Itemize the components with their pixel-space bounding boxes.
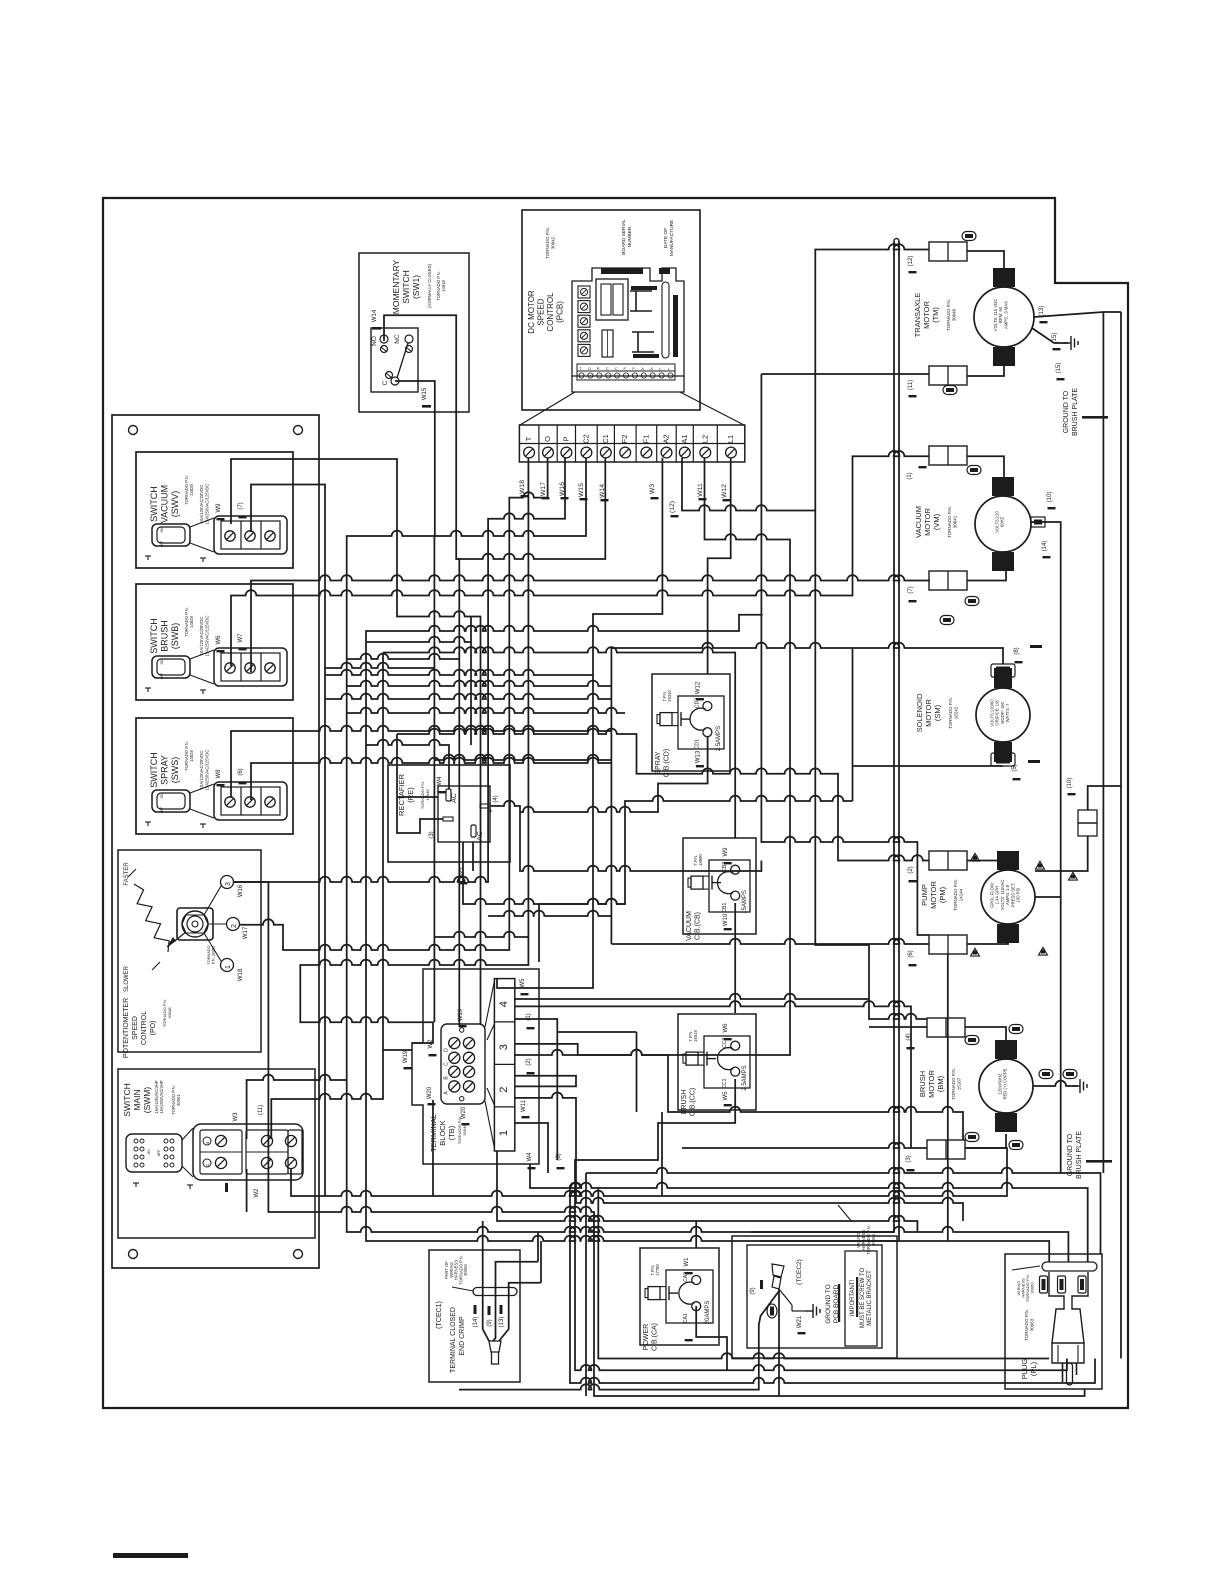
wire rect AC2 wire: [472, 842, 474, 871]
svg-text:15167: 15167: [957, 1077, 962, 1090]
wire rect + wire: [490, 801, 761, 871]
wire trunk link TM11: [761, 373, 929, 375]
wire W16 from P: [234, 458, 565, 882]
svg-text:C2: C2: [581, 434, 590, 444]
fan line right PCB-to-strip: [680, 392, 744, 425]
svg-text:(SWS): (SWS): [170, 757, 180, 784]
wire row 659 link: [347, 654, 460, 659]
wire conn10 bottom wire: [1035, 836, 1088, 871]
svg-text:ON: ON: [160, 793, 164, 798]
svg-text:W3: W3: [649, 484, 656, 494]
wire SWM 11 wire: [271, 653, 383, 1140]
wire W10 row2: [636, 1032, 638, 1112]
wire SWS terminal2 feed: [251, 758, 611, 800]
svg-text:GROUND TO: GROUND TO: [1063, 390, 1070, 433]
svg-text:F1: F1: [641, 435, 650, 444]
svg-text:SWITCH: SWITCH: [149, 486, 159, 522]
wire W15 SW1 C wire: [395, 381, 435, 1022]
wire VM right wire: [1031, 522, 1061, 1173]
wire bottom row 1283: [540, 1241, 542, 1283]
wire W3 from A2: [497, 458, 662, 988]
panel mounting hole bottom-right: [294, 1250, 303, 1259]
svg-text:14828: 14828: [189, 750, 194, 762]
svg-text:VACUUM: VACUUM: [160, 485, 170, 523]
PM warn tri 1: [971, 853, 980, 861]
svg-text:(3): (3): [906, 1155, 912, 1162]
svg-text:3: 3: [498, 1044, 510, 1050]
VM oval top: [967, 466, 981, 475]
svg-text:14828: 14828: [189, 616, 194, 628]
BM oval top1: [965, 1036, 979, 1045]
svg-text:(12): (12): [908, 256, 914, 267]
svg-text:TORNADO P.N.: TORNADO P.N.: [948, 697, 953, 729]
wire SM top wire: [611, 643, 1003, 664]
svg-text:W5: W5: [723, 1091, 729, 1101]
wire W12 from L1: [708, 458, 731, 631]
VM oval bottom1: [965, 597, 979, 606]
svg-text:W13: W13: [695, 750, 701, 763]
brush circuit breaker CC box: [678, 1014, 756, 1110]
svg-text:MAIN: MAIN: [132, 1089, 142, 1110]
PCB terminal strip T O P C2 C1 F2 F1 A2 A1 L2 L1: [519, 425, 744, 462]
svg-text:30060: 30060: [463, 1264, 468, 1276]
PM warn tri 4: [1039, 947, 1048, 955]
svg-text:14918: 14918: [441, 280, 446, 292]
PM connector (6): [929, 935, 967, 954]
wire W10 row: [557, 1031, 636, 1033]
VM connector (7): [929, 571, 967, 590]
terminal block TB: [412, 969, 539, 1164]
svg-text:(PO): (PO): [150, 1021, 157, 1036]
svg-text:(RE): (RE): [406, 787, 415, 803]
potentiometer speed control PO box: [118, 850, 261, 1052]
svg-text:(7): (7): [238, 502, 244, 509]
svg-text:NUMBER: NUMBER: [627, 226, 633, 247]
TM oval top: [962, 232, 976, 241]
svg-text:AMPS: .3 MAX: AMPS: .3 MAX: [1003, 301, 1008, 329]
svg-text:RECTAFIER: RECTAFIER: [397, 773, 406, 816]
wire PM right wire: [1035, 896, 1061, 898]
svg-text:16519: 16519: [693, 1030, 698, 1042]
svg-text:(14): (14): [1042, 541, 1048, 552]
svg-text:NO: NO: [371, 336, 378, 346]
transaxle motor TM: [993, 268, 1015, 287]
svg-text:15A/250VAC/125VDC: 15A/250VAC/125VDC: [205, 484, 210, 525]
wire row 1358: [598, 1188, 1049, 1359]
svg-text:SWITCH: SWITCH: [149, 618, 159, 654]
svg-text:TORNADO P.N.: TORNADO P.N.: [947, 506, 952, 538]
svg-text:(9): (9): [750, 1287, 756, 1294]
svg-text:W19: W19: [403, 1050, 409, 1063]
label W12: [721, 484, 728, 498]
wire VM lower wire: [967, 570, 1006, 581]
svg-text:10A/125VAC/28VDC: 10A/125VAC/28VDC: [199, 617, 204, 656]
BM oval bottom1: [965, 1133, 979, 1142]
svg-text:W18: W18: [238, 968, 244, 981]
svg-text:SOLENOID: SOLENOID: [915, 693, 924, 732]
wire row 745 link: [366, 740, 449, 789]
svg-text:NC: NC: [394, 334, 401, 344]
SM terminal bottom: [994, 742, 1012, 762]
wire row 1173: [586, 1168, 1101, 1254]
svg-text:VACUUM: VACUUM: [686, 911, 693, 941]
wire rect (3) wire: [397, 734, 443, 833]
wire rect in1: [397, 796, 438, 798]
svg-text:OFF: OFF: [160, 673, 164, 679]
svg-text:MOTOR: MOTOR: [927, 1070, 936, 1098]
svg-text:(5): (5): [1012, 764, 1018, 771]
svg-text:CONTROL: CONTROL: [141, 1011, 148, 1045]
control panel plate outline: [112, 415, 319, 1268]
svg-text:15948: 15948: [425, 789, 430, 801]
panel mounting hole top-left: [129, 426, 138, 435]
svg-text:ON: ON: [160, 659, 164, 664]
wire row 642 link: [366, 637, 471, 642]
vacuum circuit breaker CB box: [683, 838, 756, 934]
svg-text:POTENTIOMETER: POTENTIOMETER: [123, 998, 130, 1058]
svg-text:(SW1): (SW1): [411, 275, 421, 299]
svg-text:(10): (10): [1047, 492, 1053, 503]
svg-text:VACUUM: VACUUM: [914, 506, 923, 538]
wire row 713 link: [347, 708, 625, 713]
svg-text:15AMPS: 15AMPS: [742, 890, 748, 914]
svg-text:IMPORTANT!: IMPORTANT!: [850, 1279, 856, 1316]
svg-text:(TM): (TM): [931, 307, 940, 323]
wire CA bottom wire: [696, 1306, 727, 1370]
svg-text:DC MOTOR: DC MOTOR: [527, 290, 536, 334]
TM connector (11): [929, 366, 967, 385]
wire TM 13 wire: [1034, 312, 1121, 317]
wire row 668 link: [325, 663, 434, 668]
wire W20 wire: [432, 1100, 434, 1196]
wire TB 2 wires: [515, 1076, 576, 1087]
SM terminal top: [994, 668, 1012, 688]
PM warn tri 5: [1069, 872, 1078, 880]
VM connector (1): [929, 446, 967, 465]
wire TCEC1 wire 9: [493, 1262, 538, 1341]
wiring harness note: [856, 1225, 876, 1255]
svg-text:POWER: POWER: [643, 1324, 650, 1350]
rectifier RE box: [388, 765, 510, 862]
svg-text:(11): (11): [258, 1105, 264, 1115]
wire SWM W2b wire: [291, 1169, 325, 1196]
svg-text:(SWB): (SWB): [170, 623, 180, 650]
svg-text:TORNADO P.N.: TORNADO P.N.: [545, 227, 550, 259]
power circuit breaker CA box: [640, 1248, 719, 1345]
svg-text:W2: W2: [254, 1188, 260, 1198]
svg-text:A: A: [650, 366, 653, 371]
ground to brush plate label bottom: [1067, 1131, 1083, 1179]
wire TB 3 wire b: [578, 1050, 963, 1140]
BM connector (4): [927, 1018, 965, 1037]
svg-text:(TCEC2): (TCEC2): [796, 1259, 803, 1285]
label W14: [599, 484, 606, 498]
wire SWM W3 wire: [247, 1075, 347, 1139]
TM ground labels: [1039, 306, 1045, 317]
wire BM lower right wire: [965, 1134, 1006, 1148]
svg-text:C: C: [615, 366, 618, 371]
wire W15 from C2: [347, 458, 1069, 1262]
svg-text:C: C: [382, 380, 389, 385]
svg-text:W17: W17: [540, 482, 547, 496]
svg-text:(TCEC1): (TCEC1): [436, 1301, 443, 1329]
svg-text:60HZ: 60HZ: [1000, 516, 1005, 527]
wire rect W5 wire: [463, 796, 853, 904]
svg-text:2: 2: [231, 924, 238, 928]
PM warn tri 2: [1036, 861, 1045, 869]
wire TM upper wire: [967, 251, 1004, 269]
svg-text:(12): (12): [669, 501, 676, 513]
svg-text:(SM): (SM): [933, 704, 942, 721]
wire W14 from C1: [456, 458, 605, 559]
svg-text:14828: 14828: [189, 484, 194, 496]
wire row 686 link: [347, 681, 612, 686]
terminal closed end crimp TCEC2 box: [732, 1236, 897, 1358]
wire row 760 SM5: [434, 755, 611, 760]
svg-text:W4: W4: [437, 776, 443, 786]
svg-text:30042: 30042: [551, 236, 556, 249]
wire TB 2 wire b: [515, 1093, 963, 1222]
wire TCEC1 wire 13: [499, 1283, 541, 1341]
label W11: [697, 483, 704, 497]
svg-text:W17: W17: [243, 926, 249, 939]
svg-text:MOTOR: MOTOR: [923, 508, 932, 536]
svg-text:W9: W9: [216, 503, 222, 513]
footer bar bottom-left: [113, 1553, 188, 1558]
PM connector (2): [929, 851, 967, 870]
label W3: [649, 484, 656, 494]
wire VM upper wire: [967, 456, 1004, 477]
VM oval bottom2: [940, 616, 954, 625]
PM warn tri 3: [971, 948, 980, 956]
wire conn10 top wire: [1088, 786, 1121, 810]
wire TCEC2 wire b: [778, 1289, 780, 1396]
BM oval bottom2: [1009, 1141, 1023, 1150]
svg-text:L2: L2: [700, 435, 709, 443]
wire vert 761: [761, 374, 929, 935]
wire W19 wire: [383, 1049, 412, 1051]
svg-text:MOTOR: MOTOR: [922, 301, 931, 329]
wire SWS terminal1 feed: [231, 726, 611, 798]
svg-text:14144: 14144: [959, 888, 964, 901]
wire stub 707 631: [707, 631, 709, 674]
label W18: [519, 480, 526, 494]
svg-text:METALIC BRACKET: METALIC BRACKET: [867, 1270, 873, 1326]
svg-text:1: 1: [225, 965, 232, 969]
wire TB 3 wire: [515, 1044, 578, 1055]
SM label (5): [1012, 764, 1018, 771]
svg-text:(1): (1): [907, 472, 913, 479]
svg-text:SPRAY: SPRAY: [160, 755, 170, 785]
wire TB 4 wires b: [515, 1001, 911, 1148]
svg-text:C.B.(CB): C.B.(CB): [695, 912, 702, 940]
svg-text:CONTROL: CONTROL: [546, 292, 555, 332]
wire row 937 link: [434, 932, 528, 937]
wire row 734 link: [397, 729, 929, 861]
svg-text:TRANSAXLE: TRANSAXLE: [913, 293, 922, 338]
svg-text:OFF: OFF: [157, 1150, 161, 1157]
wire row 652 link: [383, 647, 735, 838]
svg-text:GROUND TO: GROUND TO: [825, 1284, 832, 1324]
plug PL box: [1005, 1254, 1102, 1389]
wire SWM W2 wire: [246, 1169, 248, 1212]
svg-text:(7): (7): [908, 586, 914, 593]
svg-text:BLOCK: BLOCK: [438, 1120, 447, 1145]
switch spray SWS box: [136, 718, 293, 834]
svg-text:D: D: [444, 1048, 450, 1052]
svg-text:2: 2: [498, 1087, 510, 1093]
wire TB W4 wire: [497, 1151, 917, 1232]
connector pair (10) right: [1078, 810, 1097, 823]
svg-text:RED (+) COPPE: RED (+) COPPE: [1003, 1068, 1008, 1099]
wire PM upper right wire: [967, 861, 1008, 871]
svg-text:CD1: CD1: [694, 739, 700, 749]
svg-text:W1: W1: [684, 1257, 690, 1267]
svg-text:W7: W7: [238, 633, 244, 643]
svg-text:BRUSH: BRUSH: [160, 620, 170, 652]
svg-text:15A/250VAC/125VDC: 15A/250VAC/125VDC: [205, 616, 210, 657]
panel mounting hole top-right: [294, 426, 303, 435]
wire CB W10 wire: [734, 903, 736, 1013]
wire BM ground wire: [1033, 1081, 1078, 1086]
svg-text:W12: W12: [695, 681, 701, 694]
svg-text:CB1: CB1: [722, 903, 728, 913]
wire TB 4 wire b: [515, 1019, 557, 1160]
svg-text:W6: W6: [723, 1023, 729, 1033]
wire SWB terminal2 feed: [251, 575, 930, 672]
wire SWV terminal1 feed: [231, 459, 481, 1024]
svg-text:A2: A2: [662, 434, 671, 443]
wire TM ground wire: [1032, 328, 1068, 343]
svg-text:(SWV): (SWV): [170, 491, 180, 518]
svg-text:DATE OF: DATE OF: [663, 228, 669, 249]
svg-text:4: 4: [498, 1001, 510, 1007]
ground to brush plate label top: [1063, 388, 1079, 436]
svg-text:30060: 30060: [1030, 1282, 1035, 1294]
svg-text:FASTER: FASTER: [124, 862, 130, 886]
wire PM lower right wire: [967, 943, 1008, 944]
fan line left PCB-to-strip: [520, 392, 575, 425]
svg-text:TORNADO: TORNADO: [207, 945, 211, 964]
svg-text:T: T: [524, 436, 533, 441]
svg-text:BOARD SERIAL: BOARD SERIAL: [621, 219, 627, 255]
momentary switch SW1 box: [359, 253, 469, 412]
wire col 586: [585, 1173, 587, 1396]
wire vert 1121: [1120, 312, 1122, 1359]
TM ground symbol: [1063, 336, 1078, 350]
svg-text:W4: W4: [527, 1152, 533, 1162]
trunk cap: [894, 239, 899, 242]
BM ground symbol: [1072, 1079, 1087, 1093]
svg-text:L1: L1: [726, 435, 735, 443]
wire BM upper right wire: [965, 1027, 1006, 1040]
svg-text:W8: W8: [216, 769, 222, 779]
svg-text:BRUSH: BRUSH: [918, 1071, 927, 1097]
wire TM lower wire: [967, 365, 1004, 376]
svg-text:W3: W3: [233, 1112, 239, 1122]
svg-text:+: +: [488, 809, 495, 813]
wire col 611 spray: [610, 648, 612, 944]
SM label (8): [1014, 647, 1020, 654]
svg-text:W20: W20: [427, 1086, 433, 1099]
switch vacuum SWV box: [136, 452, 293, 568]
wire rect W4 wire: [470, 617, 472, 746]
border frame of schematic sheet: [103, 198, 1128, 1408]
wire CA top wire: [695, 1221, 697, 1248]
wire W11 from L2: [515, 458, 790, 1055]
wire W17 from O: [240, 458, 548, 950]
wire row 614 link: [366, 615, 1049, 1262]
svg-text:W10: W10: [723, 913, 729, 926]
wire bottom row 1262: [537, 1232, 539, 1262]
wire trunk right: [760, 241, 899, 1241]
svg-text:(2): (2): [908, 866, 914, 873]
svg-text:(6): (6): [238, 768, 244, 775]
wire TB 8 wire: [530, 1164, 1088, 1262]
svg-text:W11: W11: [697, 483, 704, 497]
svg-text:SWITCH: SWITCH: [401, 270, 411, 304]
svg-text:19310: 19310: [667, 690, 672, 702]
svg-text:1: 1: [498, 1130, 510, 1136]
svg-text:MOTOR: MOTOR: [929, 881, 938, 909]
svg-text:16242: 16242: [954, 706, 959, 719]
svg-text:17780: 17780: [655, 1264, 660, 1276]
svg-text:W11: W11: [521, 1099, 527, 1112]
svg-text:W14: W14: [372, 309, 378, 322]
svg-text:(PL): (PL): [1029, 1361, 1038, 1376]
wire row 1383: [570, 1188, 1095, 1383]
wire vert 1103: [1102, 312, 1104, 1173]
svg-text:MANUFACTURE: MANUFACTURE: [669, 220, 675, 257]
wire PO terminal3 wire: [234, 882, 1085, 1396]
BM connector (3): [927, 1140, 965, 1159]
svg-text:O: O: [543, 436, 552, 442]
svg-text:30046: 30046: [462, 1124, 467, 1136]
switch main SWM box: [118, 1069, 315, 1238]
wire PM6 bottom col: [947, 954, 949, 1241]
svg-text:W9: W9: [723, 847, 729, 857]
wire row 699 link: [325, 694, 611, 699]
svg-text:SWITCH: SWITCH: [149, 752, 159, 788]
label (12) under A1: [669, 501, 676, 513]
pump motor PM: [997, 851, 1019, 870]
svg-text:30061: 30061: [176, 1094, 181, 1106]
svg-text:MUST BE SCREW TO: MUST BE SCREW TO: [860, 1267, 866, 1328]
svg-text:30048: 30048: [167, 1007, 172, 1019]
svg-text:(NORMALLY CLOSED): (NORMALLY CLOSED): [427, 263, 432, 307]
svg-text:W16: W16: [238, 884, 244, 897]
svg-text:P.N. 30052: P.N. 30052: [212, 946, 216, 965]
svg-text:(6): (6): [908, 950, 914, 957]
svg-text:18990: 18990: [698, 854, 703, 866]
svg-text:AC: AC: [451, 793, 458, 803]
svg-text:ON: ON: [160, 527, 164, 532]
panel mounting hole bottom-left: [129, 1250, 138, 1259]
svg-text:C.B.(CA): C.B.(CA): [652, 1323, 659, 1351]
svg-text:SPEED: SPEED: [132, 1016, 139, 1040]
svg-text:MOTOR: MOTOR: [924, 699, 933, 727]
svg-text:20AMPS: 20AMPS: [705, 1301, 711, 1325]
wire W14 SW1 NO wire: [384, 315, 459, 1026]
label W15: [578, 483, 585, 497]
brush motor BM: [995, 1040, 1017, 1059]
svg-text:10A/125VAC/28VDC: 10A/125VAC/28VDC: [199, 485, 204, 524]
svg-text:100 PSI: 100 PSI: [1016, 888, 1021, 903]
wire TCEC1 wire 14: [483, 1221, 489, 1341]
svg-text:PUMP: PUMP: [920, 884, 929, 906]
wire (12) from A1: [682, 244, 929, 510]
svg-text:30041: 30041: [953, 515, 958, 528]
